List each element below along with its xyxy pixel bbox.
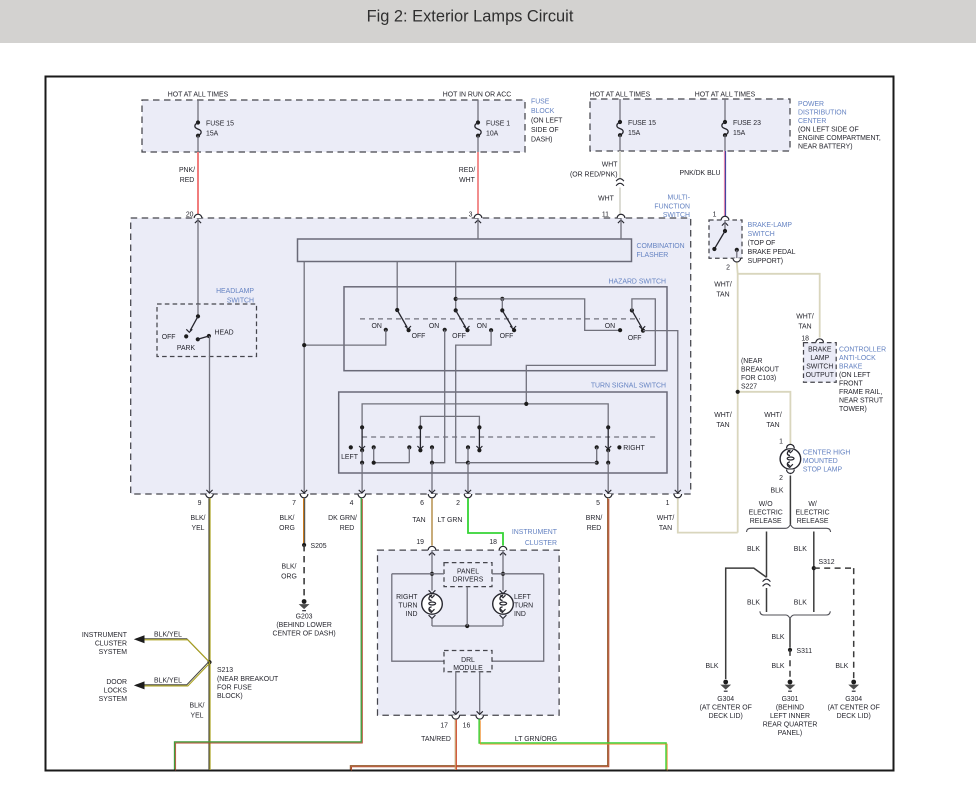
- svg-text:BLK: BLK: [794, 546, 807, 553]
- svg-text:FRAME RAIL,: FRAME RAIL,: [839, 389, 882, 396]
- svg-text:DOOR: DOOR: [106, 679, 127, 686]
- svg-text:DECK LID): DECK LID): [837, 713, 871, 720]
- svg-text:OFF: OFF: [500, 333, 514, 340]
- svg-text:BLK: BLK: [747, 546, 760, 553]
- svg-text:NEAR STRUT: NEAR STRUT: [839, 398, 884, 405]
- svg-text:BLK: BLK: [705, 663, 718, 670]
- svg-text:LT GRN/ORG: LT GRN/ORG: [515, 736, 557, 743]
- svg-text:REAR QUARTER: REAR QUARTER: [763, 722, 818, 729]
- svg-text:BLK: BLK: [835, 663, 848, 670]
- svg-text:BLK/: BLK/: [191, 515, 206, 522]
- svg-text:TAN: TAN: [412, 517, 425, 524]
- svg-text:7: 7: [292, 500, 296, 507]
- svg-text:(ON LEFT: (ON LEFT: [531, 118, 563, 125]
- svg-text:STOP LAMP: STOP LAMP: [803, 467, 843, 474]
- svg-text:OFF: OFF: [628, 335, 642, 342]
- svg-text:1: 1: [713, 212, 717, 219]
- svg-text:ON: ON: [429, 323, 439, 330]
- svg-text:DASH): DASH): [531, 137, 552, 144]
- svg-text:BLK/YEL: BLK/YEL: [154, 678, 182, 685]
- svg-text:SWITCH: SWITCH: [806, 364, 833, 371]
- svg-text:WHT: WHT: [598, 196, 614, 203]
- svg-text:TURN: TURN: [514, 603, 533, 610]
- svg-text:OFF: OFF: [452, 333, 466, 340]
- svg-text:(NEAR: (NEAR: [741, 358, 762, 365]
- svg-text:5: 5: [596, 500, 600, 507]
- svg-text:W/O: W/O: [759, 501, 773, 508]
- svg-text:CLUSTER: CLUSTER: [525, 540, 557, 547]
- svg-text:SIDE OF: SIDE OF: [531, 127, 559, 134]
- svg-text:15A: 15A: [206, 131, 219, 138]
- svg-text:DRL: DRL: [461, 657, 475, 664]
- svg-text:CENTER OF DASH): CENTER OF DASH): [273, 631, 336, 638]
- svg-text:BRAKE: BRAKE: [808, 347, 832, 354]
- svg-text:G203: G203: [296, 614, 313, 621]
- svg-text:S213: S213: [217, 667, 233, 674]
- svg-text:HAZARD SWITCH: HAZARD SWITCH: [609, 279, 666, 286]
- svg-text:WHT/: WHT/: [714, 282, 732, 289]
- svg-text:1: 1: [779, 439, 783, 446]
- svg-text:ON: ON: [477, 323, 487, 330]
- svg-text:TOWER): TOWER): [839, 406, 867, 413]
- svg-text:(BEHIND LOWER: (BEHIND LOWER: [276, 622, 332, 629]
- svg-text:PANEL: PANEL: [457, 569, 479, 576]
- svg-text:BRAKE PEDAL: BRAKE PEDAL: [748, 249, 796, 256]
- svg-text:15A: 15A: [628, 130, 641, 137]
- svg-text:1: 1: [666, 500, 670, 507]
- svg-text:(OR RED/PNK): (OR RED/PNK): [570, 172, 617, 179]
- svg-text:LEFT: LEFT: [341, 454, 359, 461]
- svg-text:TAN: TAN: [798, 324, 811, 331]
- svg-text:(AT CENTER OF: (AT CENTER OF: [828, 705, 880, 712]
- svg-text:BLK: BLK: [771, 634, 784, 641]
- svg-text:WHT: WHT: [602, 162, 618, 169]
- svg-text:W/: W/: [808, 501, 817, 508]
- svg-text:HEADLAMP: HEADLAMP: [216, 288, 254, 295]
- svg-text:LEFT INNER: LEFT INNER: [770, 713, 810, 720]
- svg-text:ELECTRIC: ELECTRIC: [749, 510, 783, 517]
- svg-text:HOT AT ALL TIMES: HOT AT ALL TIMES: [590, 92, 651, 99]
- svg-text:BLK: BLK: [770, 488, 783, 495]
- svg-text:18: 18: [489, 539, 497, 546]
- svg-text:COMBINATION: COMBINATION: [637, 243, 685, 250]
- svg-text:BLOCK: BLOCK: [531, 108, 555, 115]
- svg-text:(AT CENTER OF: (AT CENTER OF: [700, 705, 752, 712]
- svg-text:PNK/: PNK/: [179, 167, 195, 174]
- svg-text:SYSTEM: SYSTEM: [99, 649, 128, 656]
- svg-text:FOR FUSE: FOR FUSE: [217, 685, 252, 692]
- svg-text:WHT/: WHT/: [764, 412, 782, 419]
- svg-text:BLK: BLK: [747, 600, 760, 607]
- svg-text:FUSE 15: FUSE 15: [206, 121, 234, 128]
- svg-text:BLOCK): BLOCK): [217, 693, 243, 700]
- svg-text:RIGHT: RIGHT: [623, 445, 645, 452]
- svg-text:10A: 10A: [486, 131, 499, 138]
- svg-text:(TOP OF: (TOP OF: [748, 240, 776, 247]
- svg-text:NEAR BATTERY): NEAR BATTERY): [798, 144, 853, 151]
- svg-text:RED: RED: [587, 525, 602, 532]
- svg-text:OFF: OFF: [162, 334, 176, 341]
- svg-text:FOR C103): FOR C103): [741, 375, 776, 382]
- svg-text:2: 2: [779, 475, 783, 482]
- svg-text:TAN: TAN: [716, 292, 729, 299]
- svg-text:SWITCH: SWITCH: [663, 212, 690, 219]
- svg-text:17: 17: [440, 723, 448, 730]
- svg-text:PNK/DK BLU: PNK/DK BLU: [680, 170, 721, 177]
- svg-text:FLASHER: FLASHER: [637, 252, 669, 259]
- svg-text:S312: S312: [819, 559, 835, 566]
- svg-text:G304: G304: [845, 696, 862, 703]
- svg-text:9: 9: [198, 500, 202, 507]
- svg-text:ON: ON: [372, 323, 382, 330]
- svg-text:18: 18: [801, 336, 809, 343]
- svg-text:WHT/: WHT/: [714, 412, 732, 419]
- svg-text:YEL: YEL: [191, 525, 204, 532]
- svg-text:PANEL): PANEL): [778, 730, 802, 737]
- svg-text:IND: IND: [406, 611, 418, 618]
- svg-text:IND: IND: [514, 611, 526, 618]
- svg-text:BLK: BLK: [794, 600, 807, 607]
- svg-text:CENTER HIGH: CENTER HIGH: [803, 450, 850, 457]
- svg-text:HOT AT ALL TIMES: HOT AT ALL TIMES: [168, 92, 229, 99]
- svg-text:MOUNTED: MOUNTED: [803, 458, 838, 465]
- svg-text:RED: RED: [340, 525, 355, 532]
- svg-text:16: 16: [463, 723, 471, 730]
- svg-text:LAMP: LAMP: [810, 355, 829, 362]
- svg-text:WHT/: WHT/: [796, 314, 814, 321]
- svg-text:BLK/: BLK/: [280, 515, 295, 522]
- svg-text:BLK/: BLK/: [190, 703, 205, 710]
- svg-text:S227: S227: [741, 384, 757, 391]
- svg-text:6: 6: [420, 500, 424, 507]
- svg-text:OFF: OFF: [412, 333, 426, 340]
- svg-text:OUTPUT: OUTPUT: [806, 372, 835, 379]
- svg-text:LOCKS: LOCKS: [104, 688, 128, 695]
- svg-text:POWER: POWER: [798, 101, 824, 108]
- svg-text:(NEAR BREAKOUT: (NEAR BREAKOUT: [217, 676, 279, 683]
- svg-text:S205: S205: [311, 543, 327, 550]
- svg-text:TAN: TAN: [766, 422, 779, 429]
- svg-text:WHT: WHT: [459, 177, 475, 184]
- svg-text:DK GRN/: DK GRN/: [328, 515, 357, 522]
- svg-text:TAN: TAN: [659, 525, 672, 532]
- svg-text:SWITCH: SWITCH: [227, 298, 254, 305]
- svg-text:CONTROLLER: CONTROLLER: [839, 347, 886, 354]
- svg-text:ON: ON: [605, 323, 615, 330]
- svg-text:2: 2: [726, 265, 730, 272]
- svg-text:TURN: TURN: [398, 603, 417, 610]
- svg-text:HEAD: HEAD: [215, 330, 234, 337]
- svg-text:BRN/: BRN/: [586, 515, 603, 522]
- svg-text:BLK: BLK: [771, 663, 784, 670]
- svg-text:RED/: RED/: [459, 167, 476, 174]
- svg-text:BREAKOUT: BREAKOUT: [741, 367, 780, 374]
- svg-text:HOT IN RUN OR ACC: HOT IN RUN OR ACC: [443, 92, 511, 99]
- svg-text:4: 4: [350, 500, 354, 507]
- svg-text:CLUSTER: CLUSTER: [95, 641, 127, 648]
- svg-text:INSTRUMENT: INSTRUMENT: [82, 632, 128, 639]
- svg-text:CENTER: CENTER: [798, 118, 826, 125]
- svg-text:G304: G304: [717, 696, 734, 703]
- svg-text:RED: RED: [180, 177, 195, 184]
- svg-text:FUSE: FUSE: [531, 99, 550, 106]
- svg-text:RELEASE: RELEASE: [750, 518, 782, 525]
- svg-text:INSTRUMENT: INSTRUMENT: [512, 529, 558, 536]
- svg-text:FUSE 1: FUSE 1: [486, 121, 510, 128]
- svg-text:TAN/RED: TAN/RED: [421, 736, 451, 743]
- svg-text:SYSTEM: SYSTEM: [99, 696, 128, 703]
- svg-text:BRAKE: BRAKE: [839, 364, 863, 371]
- svg-text:LT GRN: LT GRN: [438, 517, 463, 524]
- svg-text:ELECTRIC: ELECTRIC: [796, 510, 830, 517]
- svg-text:FRONT: FRONT: [839, 381, 864, 388]
- svg-text:ANTI-LOCK: ANTI-LOCK: [839, 355, 876, 362]
- svg-text:RIGHT: RIGHT: [396, 594, 418, 601]
- svg-text:2: 2: [456, 500, 460, 507]
- svg-text:BRAKE-LAMP: BRAKE-LAMP: [748, 222, 793, 229]
- svg-text:PARK: PARK: [177, 345, 196, 352]
- svg-text:FUNCTION: FUNCTION: [654, 204, 690, 211]
- svg-text:ENGINE COMPARTMENT,: ENGINE COMPARTMENT,: [798, 135, 881, 142]
- svg-text:SUPPORT): SUPPORT): [748, 258, 783, 265]
- svg-text:(ON LEFT SIDE OF: (ON LEFT SIDE OF: [798, 127, 859, 134]
- svg-text:TURN SIGNAL SWITCH: TURN SIGNAL SWITCH: [591, 383, 666, 390]
- svg-text:S311: S311: [797, 648, 813, 655]
- svg-text:15A: 15A: [733, 130, 746, 137]
- svg-text:DECK LID): DECK LID): [709, 713, 743, 720]
- svg-text:BLK/YEL: BLK/YEL: [154, 632, 182, 639]
- svg-text:ORG: ORG: [279, 525, 295, 532]
- svg-text:MULTI-: MULTI-: [668, 195, 690, 202]
- svg-text:HOT AT ALL TIMES: HOT AT ALL TIMES: [695, 92, 756, 99]
- svg-text:(BEHIND: (BEHIND: [776, 705, 804, 712]
- svg-text:FUSE 23: FUSE 23: [733, 120, 761, 127]
- svg-text:RELEASE: RELEASE: [797, 518, 829, 525]
- svg-text:YEL: YEL: [190, 713, 203, 720]
- svg-text:G301: G301: [782, 696, 799, 703]
- svg-text:SWITCH: SWITCH: [748, 231, 775, 238]
- svg-text:LEFT: LEFT: [514, 594, 532, 601]
- svg-text:DISTRIBUTION: DISTRIBUTION: [798, 110, 847, 117]
- svg-text:BLK/: BLK/: [282, 564, 297, 571]
- svg-text:FUSE 15: FUSE 15: [628, 120, 656, 127]
- svg-text:(ON LEFT: (ON LEFT: [839, 372, 871, 379]
- svg-text:WHT/: WHT/: [657, 515, 675, 522]
- svg-text:DRIVERS: DRIVERS: [453, 577, 484, 584]
- svg-text:19: 19: [416, 539, 424, 546]
- svg-text:TAN: TAN: [716, 422, 729, 429]
- svg-text:Fig 2: Exterior Lamps Circuit: Fig 2: Exterior Lamps Circuit: [367, 8, 574, 26]
- svg-text:MODULE: MODULE: [453, 665, 483, 672]
- svg-text:ORG: ORG: [281, 574, 297, 581]
